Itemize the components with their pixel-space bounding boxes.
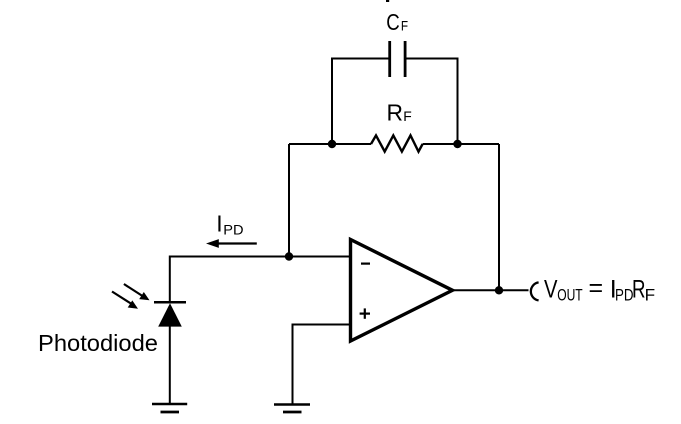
wire: inverting input horizontal	[170, 256, 352, 258]
label C_F	[386, 9, 408, 35]
svg-text:I: I	[216, 211, 222, 237]
wire: output horizontal	[452, 289, 529, 291]
node: feedback left junction	[328, 140, 336, 148]
svg-text:PD: PD	[615, 286, 634, 305]
svg-text:C: C	[386, 9, 400, 35]
capacitor CF	[390, 41, 405, 77]
svg-text:OUT: OUT	[557, 286, 583, 305]
label VOUT equation	[544, 274, 655, 305]
svg-text:Photodiode: Photodiode	[38, 330, 158, 356]
op-amp non-inverting input marker (+)	[360, 308, 370, 318]
wire: CF right vertical	[457, 58, 459, 145]
light arrow 1	[124, 284, 150, 300]
svg-text:F: F	[645, 286, 656, 305]
svg-text:R: R	[632, 276, 646, 304]
wire: photodiode anode to ground	[169, 326, 171, 405]
node: output junction	[495, 286, 503, 294]
svg-text:R: R	[387, 100, 404, 126]
cropped mark at top edge	[386, 0, 389, 2]
wire: feedback right vertical to output node	[498, 144, 500, 290]
ground (op-amp non-inverting input)	[274, 405, 310, 413]
wire: photodiode cathode vertical	[169, 256, 171, 303]
wire: CF left vertical	[331, 58, 333, 145]
svg-text:F: F	[401, 17, 408, 33]
output terminal arc	[531, 282, 539, 300]
node: inverting input junction	[285, 252, 293, 260]
wire: CF right horizontal	[405, 58, 458, 60]
ground (photodiode)	[152, 404, 187, 412]
wire: non-inverting input horizontal	[293, 324, 352, 326]
resistor RF	[371, 135, 423, 151]
svg-text:V: V	[544, 276, 558, 304]
label I_PD	[216, 211, 243, 238]
wire: feedback left vertical to inverting node	[288, 144, 290, 257]
light arrow 2	[112, 292, 138, 309]
wire: RF right horizontal	[423, 143, 499, 145]
photodiode D1	[154, 302, 186, 326]
svg-text:=: =	[589, 274, 604, 302]
op-amp inverting input marker (-)	[361, 263, 370, 265]
current arrow I_PD	[206, 239, 257, 248]
wire: CF left horizontal	[332, 58, 390, 60]
svg-text:PD: PD	[223, 222, 243, 238]
svg-text:F: F	[403, 108, 412, 124]
op-amp U1	[351, 240, 453, 342]
wire: non-inverting input to ground	[292, 324, 294, 405]
wire: RF left horizontal	[289, 143, 371, 145]
label R_F	[387, 100, 412, 126]
node: feedback right junction	[453, 140, 461, 148]
